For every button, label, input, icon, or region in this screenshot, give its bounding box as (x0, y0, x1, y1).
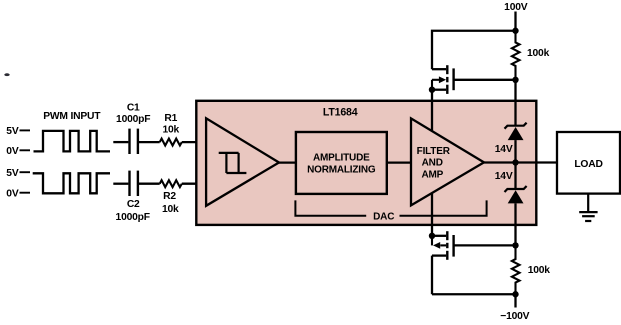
PWM waveform channel 2 (33, 173, 110, 193)
wire dash 5V ch2 (20, 171, 31, 173)
node output junction (512, 159, 518, 165)
wire dash 0V ch2 (20, 192, 31, 194)
svg-text:PWM INPUT: PWM INPUT (43, 111, 101, 122)
svg-text:R1: R1 (164, 113, 177, 124)
node junction -100V (512, 291, 518, 297)
zener D1 14V (495, 123, 527, 163)
comparator (Schmitt) triangle (206, 118, 279, 206)
svg-text:−100V: −100V (500, 311, 529, 322)
wire Q2 drain loop to -100V rail (432, 293, 516, 295)
svg-text:AMP: AMP (421, 169, 443, 180)
wire drive rail through IC (Q1 source to Q2 source) (431, 90, 433, 236)
resistor 100k (top) (512, 31, 550, 80)
DAC bracket (295, 200, 486, 222)
wire R1 to pin (182, 141, 207, 143)
svg-text:1000pF: 1000pF (116, 114, 150, 125)
wire C1 to R1 (139, 141, 160, 143)
svg-text:AMPLITUDE: AMPLITUDE (313, 153, 370, 164)
zener D2 14V (495, 163, 527, 246)
node junction 100V (512, 28, 518, 34)
load box (557, 132, 620, 194)
svg-text:10k: 10k (163, 125, 180, 136)
wire Q2 gate (454, 244, 516, 246)
node junction bottom gate (512, 242, 518, 248)
svg-text:5V: 5V (6, 168, 19, 179)
wire R2 to pin (182, 183, 207, 185)
svg-text:14V: 14V (495, 171, 513, 182)
wire amplitude normalizing to filter (387, 161, 412, 163)
wire Q1 gate (454, 79, 516, 81)
wire output to load (484, 161, 558, 163)
svg-text:1000pF: 1000pF (116, 212, 150, 223)
node junction top gate (512, 77, 518, 83)
node Q2 source (429, 233, 435, 239)
wire -100V stub (514, 294, 516, 307)
wire comparator to amplitude normalizing (279, 161, 298, 163)
wire loop to Q1 drain (432, 31, 516, 69)
hysteresis symbol (219, 153, 247, 173)
transistor Q1 (top MOSFET) (432, 65, 454, 94)
svg-text:LT1684: LT1684 (323, 106, 358, 118)
svg-text:R2: R2 (163, 191, 176, 202)
transistor Q2 (bottom MOSFET) (432, 231, 454, 294)
svg-text:5V: 5V (6, 126, 19, 137)
op-amp U1 LT1684 outline box (196, 101, 536, 225)
svg-text:100k: 100k (527, 48, 550, 59)
svg-text:FILTER: FILTER (417, 146, 451, 157)
resistor R2 (160, 180, 182, 215)
resistor 100k (bottom) (512, 245, 550, 294)
svg-text:C2: C2 (127, 199, 140, 210)
wire into C2 (113, 183, 128, 185)
svg-text:0V: 0V (6, 146, 19, 157)
svg-text:NORMALIZING: NORMALIZING (307, 165, 376, 176)
wire dash 5V ch1 (20, 129, 31, 131)
amplitude normalizing block (296, 132, 387, 194)
node Q1 source (429, 87, 435, 93)
wire 100V stub (514, 12, 516, 31)
svg-text:10k: 10k (162, 204, 179, 215)
svg-text:100k: 100k (528, 265, 551, 276)
svg-text:AND: AND (422, 158, 443, 169)
svg-text:0V: 0V (6, 188, 19, 199)
wire C2 to R2 (139, 183, 160, 185)
svg-text:DAC: DAC (373, 212, 394, 223)
svg-text:C1: C1 (127, 103, 140, 114)
svg-text:LOAD: LOAD (574, 159, 602, 170)
PWM waveform channel 1 (34, 131, 111, 152)
svg-text:100V: 100V (504, 2, 528, 13)
wire gate node to zener D1 (514, 80, 516, 126)
wire dash 0V ch1 (20, 149, 31, 151)
wire into C1 (113, 141, 128, 143)
filter and amp triangle (411, 118, 484, 205)
svg-text:14V: 14V (495, 144, 513, 155)
ground (579, 194, 597, 221)
resistor R1 (160, 113, 182, 146)
capacitor C2 (116, 171, 150, 223)
capacitor C1 (116, 103, 150, 154)
